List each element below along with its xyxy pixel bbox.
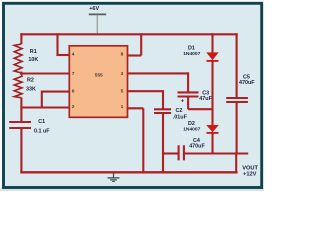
diode D2: [207, 125, 219, 132]
wire C2 to ground rail vertical: [162, 113, 164, 173]
wire R1-R2 junction vertical: [20, 72, 22, 76]
wire C3 to D1-D2 node A: [188, 108, 213, 110]
wire output line to VOUT terminal: [184, 152, 248, 154]
wire top +6V rail: [20, 33, 237, 35]
wire pin 8 horizontal: [127, 54, 141, 56]
IC U1 555 timer body: [69, 46, 127, 118]
wire D1 cathode to D2 anode (node A): [211, 61, 213, 126]
wire pin 3 output horizontal: [127, 72, 188, 74]
svg-text:1N4007: 1N4007: [183, 51, 200, 57]
wire node to pin 2 horizontal: [20, 106, 69, 108]
resistor R2: [14, 74, 22, 98]
wire pin 1 horizontal: [127, 107, 144, 109]
wire pin 5 horizontal: [127, 90, 163, 92]
svg-text:555: 555: [95, 73, 103, 79]
capacitor C2: [154, 109, 171, 113]
svg-text:7: 7: [72, 71, 75, 77]
wire pin 1 to ground rail vertical: [142, 108, 144, 173]
wire from supply bar to top rail: [96, 15, 98, 34]
wire pin 8 riser to rail: [140, 33, 142, 55]
wire pin 4 horizontal: [56, 54, 70, 56]
svg-text:.01uF: .01uF: [173, 114, 188, 120]
svg-text:470uF: 470uF: [239, 80, 255, 86]
svg-text:4: 4: [72, 52, 75, 58]
svg-text:C1: C1: [38, 119, 45, 125]
svg-text:47uF: 47uF: [199, 96, 212, 102]
wire C3 top lead: [187, 72, 189, 92]
wire left vertical from rail to R1: [20, 33, 22, 44]
svg-text:0.1 uF: 0.1 uF: [34, 128, 50, 134]
svg-text:6: 6: [72, 89, 75, 95]
capacitor C4: [179, 145, 184, 160]
diode D1: [207, 53, 219, 61]
svg-text:8: 8: [121, 52, 124, 58]
wire R2 bottom to C1 vertical: [20, 98, 22, 123]
wire rail to pin 4 vertical: [56, 33, 58, 55]
svg-text:D1: D1: [188, 46, 195, 52]
wire to pin 6 horizontal: [42, 91, 70, 93]
wire junction to pin 7 horizontal: [20, 72, 70, 74]
svg-text:+12V: +12V: [243, 171, 257, 177]
wire bottom ground rail: [20, 171, 237, 173]
wire C5 bottom lead to output line: [236, 102, 238, 154]
svg-text:1: 1: [121, 104, 124, 110]
capacitor C1: [9, 122, 31, 128]
wire pin 6 branch vertical: [41, 91, 43, 108]
power supply terminal bar: [89, 13, 106, 15]
svg-text:R2: R2: [27, 77, 34, 83]
wire rail to D1 anode: [211, 33, 213, 53]
svg-text:5: 5: [121, 89, 124, 95]
svg-text:C2: C2: [176, 108, 183, 114]
wire pin 5 to C2 vertical: [162, 90, 164, 109]
svg-text:D2: D2: [188, 121, 195, 127]
svg-text:R1: R1: [30, 49, 37, 55]
svg-text:10K: 10K: [28, 57, 38, 63]
wire output junction down to ground rail: [235, 154, 237, 173]
svg-text:2: 2: [72, 104, 75, 110]
wire D2 cathode to output line: [211, 133, 213, 155]
svg-text:+6V: +6V: [89, 6, 99, 12]
capacitor C3: [178, 92, 199, 96]
svg-text:3: 3: [121, 71, 124, 77]
ground: [108, 173, 120, 181]
wire rail right corner to C5: [236, 33, 238, 98]
wire C3 bottom lead: [187, 97, 189, 110]
svg-text:33K: 33K: [26, 87, 36, 93]
wire C1 to ground rail vertical: [20, 128, 22, 173]
wire C4 left lead: [163, 152, 179, 154]
svg-text:1N4007: 1N4007: [183, 127, 200, 133]
capacitor C5: [226, 98, 248, 102]
resistor R1: [14, 44, 22, 73]
svg-text:470uF: 470uF: [189, 143, 205, 149]
